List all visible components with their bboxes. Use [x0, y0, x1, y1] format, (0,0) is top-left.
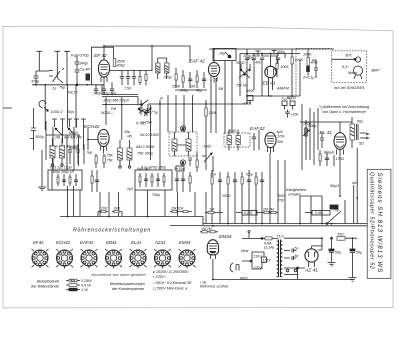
IF transformer T1 coils [156, 63, 170, 73]
svg-text:100Ω 2: 100Ω 2 [51, 110, 63, 114]
svg-text:1M 1M: 1M 1M [201, 227, 212, 231]
svg-text:1M: 1M [190, 85, 195, 89]
svg-text:AM/FM: AM/FM [276, 87, 290, 91]
wire grid cluster rail [175, 89, 207, 91]
wire verticals right audio [300, 60, 318, 170]
svg-text:Motor: Motor [348, 71, 358, 75]
svg-text:50p: 50p [357, 120, 363, 124]
resistor row right 1M [205, 211, 223, 213]
svg-text:mΩ: mΩ [352, 181, 358, 185]
svg-text:60K: 60K [114, 207, 121, 211]
svg-text:125V: 125V [263, 259, 272, 263]
svg-text:100K: 100K [281, 65, 290, 69]
svg-text:der Widerstände: der Widerstände [31, 285, 59, 289]
capacitor sw [139, 100, 143, 115]
lamp B7c [332, 57, 361, 62]
svg-text:schalter: schalter [288, 193, 302, 197]
svg-text:100K: 100K [303, 53, 312, 57]
switch verticals [106, 97, 160, 170]
tube EAF42 first [208, 63, 219, 77]
socket ECH42 [57, 250, 73, 266]
svg-text:Klangfarben-: Klangfarben- [286, 188, 308, 192]
svg-text:/45: /45 [126, 135, 132, 139]
svg-text:2: 2 [181, 127, 184, 131]
mains plug [230, 263, 239, 272]
wire EB41 cathode down [247, 66, 273, 96]
transformer primary winding [277, 241, 279, 277]
wire EF42 plate [110, 46, 152, 71]
trimmer 4,7 [144, 108, 151, 116]
svg-text:▫ 250V~ K2 Keramik 5E: ▫ 250V~ K2 Keramik 5E [153, 281, 192, 285]
voltage selector [242, 252, 267, 269]
svg-text:110V: 110V [254, 255, 263, 259]
volume pot arrow [202, 153, 212, 162]
IF can 2 coils [172, 139, 191, 151]
svg-text:10k 10k: 10k 10k [171, 207, 184, 211]
wire pot out [300, 195, 322, 197]
resistor 100K det [276, 56, 278, 77]
tube EM34 [207, 240, 218, 255]
svg-text:ECH42: ECH42 [56, 240, 71, 245]
wire vertical input 1 [44, 85, 46, 130]
shield box EF42 [92, 47, 114, 85]
wire IF to EB41 [240, 54, 300, 67]
svg-text:AZ 41: AZ 41 [304, 268, 318, 274]
svg-text:Qualitätssuper 52/Phonosuper 5: Qualitätssuper 52/Phonosuper 52 [368, 172, 374, 269]
socket EL41 [130, 250, 146, 266]
svg-text:50Ω: 50Ω [278, 194, 285, 198]
svg-text:4,7 5µ: 4,7 5µ [148, 111, 158, 115]
svg-text:10p: 10p [219, 52, 225, 56]
svg-text:30p5: 30p5 [228, 129, 236, 133]
svg-text:von Dipol u. Hochantenne: von Dipol u. Hochantenne [322, 110, 366, 114]
svg-text:5000: 5000 [246, 89, 255, 93]
svg-text:400p 300p 1R: 400p 300p 1R [52, 170, 74, 174]
dashed enclosure dial [296, 49, 332, 96]
svg-text:40Ω: 40Ω [311, 61, 318, 65]
svg-text:75K: 75K [107, 154, 114, 158]
svg-text:+10n: +10n [290, 113, 298, 117]
tube EL41 [334, 133, 346, 150]
socket EAF42 [81, 250, 97, 266]
tube EB41 [265, 66, 276, 77]
ECH42 anode components [95, 154, 105, 168]
junction dot HT [331, 237, 333, 239]
svg-text:500µ: 500µ [36, 135, 44, 139]
svg-text:B7c: B7c [346, 54, 353, 58]
switch contacts mid [138, 104, 148, 113]
svg-text:1M: 1M [55, 136, 60, 140]
wire verticals detector [211, 78, 216, 133]
svg-text:EAF42: EAF42 [250, 126, 265, 132]
svg-text:Kap≈370p: Kap≈370p [71, 53, 90, 58]
svg-text:AM 2-500K: AM 2-500K [135, 145, 155, 149]
svg-text:76p: 76p [59, 86, 65, 90]
svg-text:1 W: 1 W [81, 288, 88, 292]
svg-text:1M: 1M [209, 208, 214, 212]
band switch contact arrows [49, 68, 64, 83]
cathode capacitors EF42 [94, 82, 114, 95]
legend resistor 0,25W [66, 279, 80, 282]
svg-text:30µ: 30µ [71, 146, 77, 150]
motor enclosure dashed [332, 51, 367, 83]
phono input TA [3, 101, 48, 112]
svg-text:N: N [160, 97, 163, 101]
socket EM34 [179, 250, 195, 266]
svg-text:2M 2M: 2M 2M [262, 208, 274, 212]
svg-text:Belastbarkeit: Belastbarkeit [37, 280, 60, 284]
tube EF42 [98, 60, 109, 77]
svg-text:0,1µ 470Ω 250p: 0,1µ 470Ω 250p [141, 166, 166, 170]
IF can 3 dashed [224, 133, 250, 147]
push switch right [247, 96, 253, 105]
svg-text:T1r1: T1r1 [276, 234, 284, 239]
electrolytic 50u b [350, 238, 355, 277]
antenna A2 [55, 51, 61, 78]
antenna A3 [64, 51, 70, 85]
svg-text:NC10 1500: NC10 1500 [140, 133, 160, 137]
resistor row 20K 60K [98, 210, 122, 216]
antenna bus wire [32, 84, 104, 86]
svg-text:Siemens SH 813 W/813 WS: Siemens SH 813 W/813 WS [376, 173, 383, 274]
svg-text:10%: 10% [278, 135, 285, 139]
svg-text:NC10—: NC10— [101, 111, 114, 115]
svg-text:AZ41: AZ41 [154, 240, 166, 245]
svg-text:740p: 740p [93, 92, 101, 96]
svg-text:2µ5: 2µ5 [126, 187, 133, 191]
wire verticals IF area [168, 61, 240, 172]
capacitor 5n a [284, 249, 297, 253]
oscillator coils [50, 146, 65, 158]
padder caps cluster [68, 144, 84, 164]
svg-text:0,5µ: 0,5µ [246, 173, 253, 177]
capacitor 500V [252, 58, 256, 66]
svg-text:100p AM 2,5µ0: 100p AM 2,5µ0 [103, 99, 130, 103]
wire top bus right [209, 49, 334, 63]
svg-text:20K: 20K [100, 207, 108, 211]
svg-text:Anschlüsse von unten gesehen: Anschlüsse von unten gesehen [91, 273, 146, 277]
motor M [353, 66, 362, 79]
svg-text:30p: 30p [124, 130, 130, 134]
svg-text:7,5K: 7,5K [124, 87, 132, 91]
svg-text:50p: 50p [196, 89, 202, 93]
svg-text:30K: 30K [277, 140, 284, 144]
EL41 cathode parts [319, 150, 334, 166]
svg-text:75K: 75K [86, 151, 93, 155]
wire ECH42 grid [88, 128, 98, 150]
svg-text:370p: 370p [164, 76, 172, 80]
volume pot [303, 120, 309, 160]
svg-text:50µΩ: 50µΩ [330, 184, 339, 188]
oscillator trimmer row [52, 119, 86, 127]
resistor 2M row [262, 211, 278, 213]
svg-text:B°puls: B°puls [324, 151, 334, 155]
svg-text:50µ: 50µ [335, 251, 341, 255]
trimmer box 10p [213, 49, 236, 61]
svg-text:50Ω: 50Ω [338, 233, 345, 237]
chassis bus right [203, 224, 368, 226]
svg-text:EAF 42: EAF 42 [189, 59, 205, 65]
EL41 grid cap [320, 132, 324, 148]
svg-text:EF 42: EF 42 [94, 53, 107, 59]
chassis ground bottom [349, 278, 357, 282]
HT wire to AZ41 [284, 238, 322, 268]
wire stub A1 [39, 70, 49, 72]
svg-text:0,25W: 0,25W [81, 279, 92, 283]
svg-text:Fu Fu: Fu Fu [282, 97, 291, 101]
svg-text:EF42: EF42 [33, 240, 44, 245]
resistor row 10k 10k [170, 210, 192, 212]
svg-text:400p: 400p [117, 64, 125, 68]
coupling caps EAF42 [252, 130, 259, 151]
svg-text:→HR2: →HR2 [200, 145, 211, 149]
circled 3 [180, 160, 185, 165]
svg-text:500p: 500p [309, 124, 317, 128]
output transformer [350, 124, 355, 140]
svg-text:EB 41: EB 41 [263, 81, 276, 87]
title box [367, 169, 391, 278]
svg-text:200Ω: 200Ω [221, 194, 231, 198]
RC coupling [91, 170, 99, 192]
IF can 2 dashed [169, 132, 197, 156]
svg-text:6,3~: 6,3~ [342, 65, 350, 69]
chassis bus upper [60, 216, 203, 218]
svg-text:EL 41: EL 41 [320, 130, 333, 136]
oscillator coil 2 [118, 148, 133, 160]
svg-text:350Ω: 350Ω [236, 61, 245, 65]
trimmer chain 340p [75, 57, 80, 86]
capacitor 2x0,1u [312, 60, 318, 78]
power transformer core [279, 240, 281, 278]
svg-text:75K: 75K [107, 159, 114, 163]
svg-text:Betriebsspannungen: Betriebsspannungen [110, 282, 145, 286]
tone caps right [175, 172, 191, 192]
resistor box 0,1M [236, 211, 262, 216]
svg-text:0,1M: 0,1M [244, 211, 252, 215]
resistor 350K screen [113, 59, 116, 67]
plate decoupling caps [120, 71, 147, 86]
svg-text:6-70Ω: 6-70Ω [136, 122, 146, 126]
svg-text:nur bei SH813WS: nur bei SH813WS [334, 86, 365, 90]
grid resistor cluster EAF42 [175, 68, 206, 88]
capacitor 10n avc [285, 110, 289, 118]
svg-text:▸ 10/20V ⊡ 250/385V: ▸ 10/20V ⊡ 250/385V [153, 270, 189, 274]
svg-text:340p: 340p [80, 62, 88, 66]
svg-text:750p: 750p [152, 193, 160, 197]
resistor box 0,4M [305, 211, 330, 216]
transformer secondary winding [281, 241, 283, 277]
resistors above EM34 [200, 231, 218, 233]
circled 2 [180, 126, 185, 131]
svg-text:0µ5 2µ5 15µ0: 0µ5 2µ5 15µ0 [50, 166, 72, 170]
svg-text:5n: 5n [295, 254, 299, 258]
svg-text:3: 3 [182, 161, 184, 165]
coupling parts below IF [176, 152, 198, 172]
wire AVC line [148, 78, 300, 104]
tube ECH42 [98, 129, 109, 146]
svg-text:Wirk Kond. ±2,5%st: Wirk Kond. ±2,5%st [200, 285, 228, 289]
input coupling blob [86, 74, 91, 86]
svg-text:2×0,1µ: 2×0,1µ [302, 76, 314, 80]
resistor chain dial [307, 49, 310, 76]
FM switch contacts [239, 64, 250, 78]
svg-text:EB41: EB41 [106, 240, 117, 245]
ground left lower [38, 150, 46, 190]
capacitor 370p antenna [34, 71, 40, 85]
speaker terminals [360, 133, 369, 139]
socket AZ41 [155, 250, 171, 266]
fuse 0,8A [242, 231, 278, 240]
feedback network box [48, 170, 82, 190]
svg-text:Ca.4R: Ca.4R [80, 68, 91, 72]
wire vertical input 2 [66, 85, 68, 128]
socket EB41 [106, 250, 122, 266]
svg-text:5n: 5n [295, 247, 299, 251]
legend resistor 1W [66, 288, 80, 291]
svg-text:30p: 30p [68, 110, 74, 114]
resistor 150k avc [205, 108, 207, 116]
field coil 50 ohm [337, 236, 357, 240]
svg-text:EM34: EM34 [179, 240, 191, 245]
svg-text:400: 400 [255, 61, 261, 65]
svg-text:Röhrensockelschaltungen: Röhrensockelschaltungen [73, 228, 151, 234]
svg-text:500K 100K: 500K 100K [261, 54, 279, 58]
svg-text:107p: 107p [246, 57, 254, 61]
trimmer tops on bus [256, 51, 277, 56]
capacitor 500u left [30, 108, 36, 150]
capacitor 300p [276, 58, 280, 66]
feedback wire EL41 [340, 148, 357, 224]
long verticals to bus right [206, 153, 345, 224]
mains switch diagonal [326, 205, 341, 224]
svg-text:◻ 500V Mini Kond. a: ◻ 500V Mini Kond. a [153, 287, 187, 291]
svg-text:100K: 100K [295, 58, 304, 62]
capacitor 100p det [245, 58, 249, 66]
svg-text:BM7: BM7 [372, 68, 381, 73]
legend resistor 0,5W [66, 284, 80, 287]
svg-text:1s: 1s [53, 87, 57, 91]
svg-text:ECH42: ECH42 [84, 124, 100, 130]
electrolytic 50u a [328, 238, 336, 266]
svg-text:Netz: Netz [241, 249, 249, 253]
oscillator switch contacts [46, 128, 80, 135]
tone control box [135, 170, 172, 190]
svg-text:75K 300p: 75K 300p [137, 152, 153, 156]
NF resistor row [211, 170, 264, 192]
IF can 3 coils [227, 136, 241, 145]
push switch Fu [282, 101, 295, 110]
svg-text:6µ8: 6µ8 [277, 130, 283, 134]
bottom return wire [213, 268, 353, 280]
svg-text:0,4M: 0,4M [315, 211, 323, 215]
socket EF42 [32, 250, 48, 266]
wire vertical input 3 [75, 85, 77, 128]
svg-text:der Kondensatoren: der Kondensatoren [112, 287, 144, 291]
heater terminals [284, 267, 299, 275]
tube AZ41 [305, 249, 318, 262]
resistor 100K right of EB41 [291, 49, 293, 78]
svg-text:25n: 25n [209, 173, 216, 177]
antenna A1 [37, 51, 43, 71]
svg-text:5Ω: 5Ω [359, 142, 364, 146]
band switch double wire [102, 85, 138, 105]
svg-text:1n 50p: 1n 50p [174, 167, 185, 171]
capacitor 500K [260, 58, 264, 66]
svg-text:NC10: NC10 [68, 91, 78, 95]
svg-text:EM34: EM34 [219, 234, 232, 240]
svg-text:▪ 375V~: ▪ 375V~ [153, 275, 167, 279]
svg-text:*) Auftrennen bei Anschaltung: *) Auftrennen bei Anschaltung [319, 105, 370, 109]
svg-text:(1,1A): (1,1A) [264, 246, 275, 250]
svg-text:50µ: 50µ [356, 251, 362, 255]
svg-text:220V: 220V [253, 266, 263, 270]
band switch wire AM [102, 100, 148, 105]
wire top bus left [104, 46, 190, 62]
svg-text:300p: 300p [180, 89, 188, 93]
svg-text:150k: 150k [209, 111, 217, 115]
wire AF plate feed [300, 122, 352, 133]
long verticals to bus left [68, 186, 196, 217]
svg-text:EAF42: EAF42 [80, 240, 94, 245]
chassis bus lower partial [170, 217, 203, 226]
oscillator verticals [46, 121, 84, 170]
svg-text:EL41: EL41 [131, 240, 142, 245]
capacitor 5n b [284, 256, 297, 260]
tube EAF42 second [265, 132, 276, 147]
svg-text:370p: 370p [31, 80, 39, 84]
svg-text:0,5 W: 0,5 W [81, 284, 91, 288]
